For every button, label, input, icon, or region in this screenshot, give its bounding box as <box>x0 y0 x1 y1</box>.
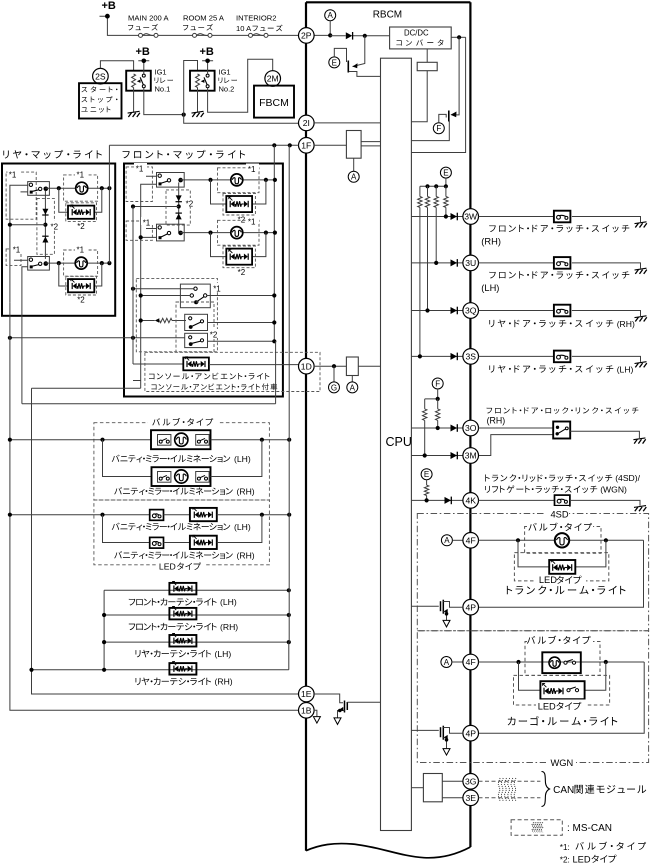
svg-text:+B: +B <box>102 0 116 12</box>
label rear courtesy RH <box>136 678 212 686</box>
switch door latch <box>554 351 571 363</box>
diode row 3U <box>451 259 458 267</box>
resistor R5 <box>424 399 426 409</box>
svg-text:*1: *1 <box>143 219 151 228</box>
ground latch switch <box>635 268 647 274</box>
node F circle lock bank <box>432 378 443 389</box>
junction relay1 out <box>182 113 186 117</box>
LED trunk room <box>549 560 575 574</box>
wire console top <box>133 288 194 290</box>
switch console main <box>180 284 210 308</box>
wire to 2I <box>184 115 299 124</box>
svg-text:4P: 4P <box>465 728 476 738</box>
diode chain rear <box>44 191 46 259</box>
wire pin to latch switch <box>479 310 554 312</box>
wire 4F cargo row <box>479 661 645 663</box>
svg-text:(LH): (LH) <box>234 454 251 464</box>
vanity lamp LH bulb unit <box>151 430 211 449</box>
svg-text:3G: 3G <box>465 776 477 786</box>
dashed box bulb type cargo <box>525 642 600 676</box>
connector pin 4F trunk <box>452 539 463 541</box>
svg-text:*1: *1 <box>213 285 221 294</box>
wires 1F block to CPU <box>361 142 380 146</box>
wire rear switch2 left <box>14 260 28 404</box>
wire DCDC node to CPU <box>411 37 465 152</box>
LED vanity RH <box>190 536 217 549</box>
wire vanity LED row2 <box>103 515 150 543</box>
svg-text:(RH): (RH) <box>215 677 233 687</box>
resistor block small below DC/DC <box>426 49 428 62</box>
svg-text:*1:: *1: <box>560 843 570 852</box>
svg-text:MAIN 200 A: MAIN 200 A <box>128 14 169 23</box>
wire to LED <box>164 514 190 516</box>
svg-text:2M: 2M <box>267 74 279 84</box>
wire 1D block to CPU <box>358 365 380 367</box>
svg-text:(4SD)/: (4SD)/ <box>615 473 640 483</box>
svg-text:+B: +B <box>200 46 214 58</box>
dashed box note1 rear bulb1 <box>64 175 98 201</box>
wire courtesy row1 <box>104 590 289 670</box>
wire pin to latch switch <box>479 262 554 264</box>
connector pin 3M <box>463 448 479 464</box>
wire switch-left rail to 1E rail <box>32 387 141 389</box>
fuse F1 MAIN 200A <box>139 33 159 37</box>
connector pin 2S <box>93 68 109 84</box>
dashed box note1 rear upper <box>6 172 36 219</box>
rear map light box <box>2 164 115 316</box>
svg-text:A: A <box>351 173 357 182</box>
svg-text:CAN: CAN <box>553 785 574 796</box>
resistor block at 1F <box>346 131 361 159</box>
connector pin 1F <box>299 138 315 154</box>
diode row 3S <box>451 353 458 361</box>
wire console mid to rail <box>141 295 275 297</box>
resistor R2 bank <box>427 186 429 196</box>
wire switch to ground <box>572 356 641 362</box>
svg-text:1B: 1B <box>301 705 312 715</box>
svg-text:*1: *1 <box>77 171 85 180</box>
svg-text:No.1: No.1 <box>155 85 171 94</box>
wire 1D to G and block <box>314 365 346 367</box>
wire switch to ground <box>572 263 641 269</box>
svg-text:E: E <box>332 58 337 67</box>
LED vanity LH <box>190 508 217 521</box>
node E circle resistor bank <box>440 167 451 178</box>
svg-text:A: A <box>328 11 334 20</box>
dashed box note1 rear lower <box>6 249 21 266</box>
wire rear switch1 left <box>10 185 28 302</box>
svg-text:WGN: WGN <box>551 758 574 768</box>
connector pin 3Q <box>463 303 479 319</box>
legend MS-CAN symbol <box>532 822 543 832</box>
node E circle 4K <box>421 469 432 480</box>
RBCM bottom torn edge <box>306 844 470 858</box>
dashed box console note1 <box>136 278 217 351</box>
label rear map light <box>3 150 101 159</box>
switch door lock link <box>553 422 570 439</box>
resistor R3 bank <box>435 186 437 196</box>
resistor block 1D <box>346 357 358 376</box>
switch rear map 1 <box>28 182 50 196</box>
wire console sw2 out <box>208 322 275 324</box>
svg-text:A: A <box>350 383 356 392</box>
diode row 3W <box>451 213 458 221</box>
svg-text:4SD: 4SD <box>550 509 568 519</box>
svg-text:IG1: IG1 <box>219 68 231 77</box>
switch door latch <box>554 211 571 223</box>
wire switch to ground <box>572 217 641 223</box>
ground trunk latch <box>634 506 646 512</box>
switch console 2 <box>185 314 208 330</box>
svg-text:3W: 3W <box>464 212 478 222</box>
node G circle <box>333 366 335 382</box>
wire vanity row1 right <box>211 439 290 441</box>
connector pin 2M <box>265 71 281 87</box>
wire front LED1 branch <box>211 180 266 204</box>
svg-text:*2: *2 <box>186 200 194 209</box>
wire E rail <box>420 178 446 186</box>
ground latch switch <box>635 222 647 228</box>
wire 1F to front box <box>109 144 298 146</box>
svg-text:F: F <box>436 124 441 133</box>
LED front courtesy RH <box>169 608 196 620</box>
dashed box note2 front LED2 <box>223 246 255 268</box>
wire courtesy row2 <box>104 614 289 616</box>
svg-text:2P: 2P <box>301 31 312 41</box>
MS-CAN bus dashed to module <box>479 780 541 782</box>
label vanity LED LH <box>112 523 230 531</box>
label bulb type vanity <box>152 418 213 426</box>
svg-text:*2: *2 <box>77 296 85 305</box>
label *1 rear upper <box>8 169 21 177</box>
wire relay1 switch output <box>144 88 184 115</box>
FBCM box <box>254 86 294 118</box>
wire CAN box to 3E <box>442 797 463 799</box>
MS-CAN twisted pair symbol <box>498 778 516 801</box>
brace CAN modules <box>542 772 550 807</box>
wire 4F trunk row <box>479 539 644 541</box>
dashed box note2 console <box>176 302 214 352</box>
wire CPU row to pin 3Q <box>411 310 463 312</box>
lamp front map bulb1 <box>231 174 243 186</box>
ground arrow 4P cargo <box>443 749 450 756</box>
bulb cargo with switch box <box>542 652 581 673</box>
label front courtesy RH <box>129 623 217 631</box>
resistor R7 <box>426 480 428 485</box>
lamp rear map bulb 2 <box>75 257 87 269</box>
dashed box LED type cargo <box>514 675 610 705</box>
LED rear map 2 <box>68 279 94 292</box>
wire F rail <box>425 389 438 399</box>
svg-text:(LH): (LH) <box>617 364 634 374</box>
dashed box LED type vanity <box>94 500 270 565</box>
wire rear feed rail from 1F <box>108 145 110 263</box>
wire 3O to lock link switch <box>479 427 554 429</box>
LED rear map 1 <box>68 206 94 219</box>
wire CPU row to pin 3S <box>411 355 463 357</box>
svg-text:(RH): (RH) <box>237 486 255 496</box>
ground relay1 coil <box>133 88 135 113</box>
transistor Q2 F-gate <box>433 123 444 134</box>
svg-text:3S: 3S <box>465 352 476 362</box>
switch vanity LED RH <box>150 537 164 548</box>
svg-text:E: E <box>424 470 429 479</box>
svg-text:No.2: No.2 <box>219 85 235 94</box>
dashed box note2 rear LED1 <box>66 203 97 222</box>
svg-text:1F: 1F <box>301 140 311 150</box>
svg-text:*1: *1 <box>248 165 256 174</box>
wire front switch1 left <box>141 176 157 388</box>
wire resistor row console <box>141 320 155 322</box>
svg-text:DC/DC: DC/DC <box>404 29 429 38</box>
svg-text:*2: *2 <box>77 222 85 231</box>
wire rear switch2 out to lamp2 <box>45 262 109 264</box>
wire trunk LED branch <box>518 540 606 567</box>
connector pin 1B <box>299 703 315 719</box>
svg-text:*1: *1 <box>9 171 17 180</box>
start-stop unit box <box>79 83 122 118</box>
wire front switch2 left <box>141 229 157 238</box>
wire 1F to resistor block A <box>314 144 346 146</box>
lamp front map bulb2 <box>231 227 243 239</box>
dashed box console ambient equipped <box>145 352 320 391</box>
ground arrow 1E driver <box>334 718 341 725</box>
wire 4K to trunk latch switch <box>479 499 555 501</box>
svg-text:INTERIOR2: INTERIOR2 <box>236 14 277 23</box>
dashed box note1 front bulb1 <box>218 168 260 193</box>
diode 4K <box>445 497 452 505</box>
wire 1E rail <box>32 670 299 694</box>
wire trunk latch to ground <box>570 500 640 505</box>
ground arrow 1B <box>313 717 320 724</box>
wire left rail to rows <box>31 388 33 670</box>
legend MS-CAN dashed box <box>511 820 562 835</box>
connector pin 3S <box>463 349 479 365</box>
wire 3M to lock link switch <box>479 435 553 456</box>
LED front map 2 <box>226 249 252 265</box>
svg-text:1D: 1D <box>301 361 312 371</box>
svg-text:CPU: CPU <box>386 435 412 449</box>
svg-text:*1: *1 <box>77 246 85 255</box>
switch vanity LED LH <box>150 510 164 521</box>
wire front switch1 out <box>180 179 276 181</box>
wire cargo LED branch <box>519 662 606 690</box>
dashed box note2 rear LED2 <box>66 276 97 295</box>
svg-text:4F: 4F <box>466 657 476 667</box>
wire pin to latch switch <box>479 216 554 218</box>
dashed box bulb type vanity <box>94 423 270 500</box>
node A circle top <box>325 10 336 21</box>
svg-text:(LH): (LH) <box>481 283 499 293</box>
relay IG1 No.1 <box>126 71 151 91</box>
wire 2I to CPU <box>314 122 381 124</box>
label front map light <box>123 150 245 159</box>
wire +B to fuse rail <box>100 16 299 35</box>
connector pin 3U <box>463 255 479 271</box>
transistor Q5 1E driver <box>314 694 343 703</box>
connector pin 4P cargo <box>463 725 479 741</box>
wire A to 2P rail <box>329 21 331 36</box>
svg-text:(LH): (LH) <box>220 597 237 607</box>
wire CPU row to pin 3M <box>411 455 463 457</box>
wire block to CPU <box>411 71 427 122</box>
svg-text:3E: 3E <box>465 793 476 803</box>
node A trunk <box>441 535 452 546</box>
svg-text:3O: 3O <box>465 423 477 433</box>
wire relay2 switch to FBCM 2M <box>208 59 273 112</box>
svg-text:F: F <box>435 379 440 388</box>
transistor Q1 E-gate <box>329 57 340 68</box>
svg-text:4F: 4F <box>466 535 476 545</box>
vanity lamp RH bulb unit <box>152 467 211 486</box>
diode D1 after 2P <box>330 35 389 37</box>
lamp rear map bulb 1 <box>76 182 88 194</box>
lamp trunk room bulb <box>555 533 569 547</box>
wire pin to latch switch <box>479 355 554 357</box>
dashed box note2 front LED1 <box>223 193 255 215</box>
wire vanity LED row2 right <box>217 515 262 543</box>
label cargo room light <box>508 716 618 725</box>
transistor Q3 4P trunk driver <box>411 605 438 607</box>
connector pin 2P <box>314 34 330 36</box>
fuse F2 ROOM 25A <box>193 33 213 37</box>
connector pin 3W <box>463 209 479 225</box>
resistor console <box>155 318 160 322</box>
svg-text:3M: 3M <box>465 451 477 461</box>
ground latch switch <box>635 316 647 322</box>
diode row 3M <box>451 452 458 460</box>
svg-text:*1: *1 <box>136 165 144 174</box>
svg-text:A: A <box>444 658 450 667</box>
connector pin 3G <box>463 774 479 790</box>
dashed box bulb type trunk <box>525 527 601 554</box>
wire vanity LED row1 <box>10 514 150 516</box>
LED rear courtesy RH <box>169 663 196 675</box>
fuse F3 INTERIOR2 10A <box>249 33 269 37</box>
connector pin 2I <box>299 115 315 131</box>
ground relay2 coil <box>197 88 199 113</box>
label vanity illumination LH <box>112 455 230 463</box>
svg-text:1E: 1E <box>301 689 312 699</box>
label rear courtesy LH <box>136 650 212 658</box>
svg-text:(WGN): (WGN) <box>600 484 627 494</box>
svg-text:*2: *2 <box>210 331 218 340</box>
ground latch switch <box>635 362 647 368</box>
svg-text:10 A: 10 A <box>236 24 252 33</box>
svg-text:(RH): (RH) <box>237 550 255 560</box>
switch front map 2 <box>157 224 185 241</box>
relay IG1 No.2 <box>190 71 215 91</box>
node A circle 1D <box>351 376 353 382</box>
wire console sw3 left <box>10 337 185 339</box>
wire vanity LED row1 right <box>217 514 289 516</box>
wire 1B left rail <box>10 302 299 710</box>
svg-text:3Q: 3Q <box>465 306 477 316</box>
svg-text:(LH): (LH) <box>215 649 232 659</box>
label front courtesy LH <box>129 598 217 606</box>
wire CPU row to pin 3U <box>411 262 463 264</box>
wire rear LED1 branch <box>59 188 102 212</box>
connector pin 4F cargo <box>452 661 463 663</box>
svg-text:A: A <box>444 536 450 545</box>
wire vanity row2 <box>103 440 152 477</box>
wire lock link to ground <box>570 431 639 438</box>
svg-text:*1: *1 <box>248 218 256 227</box>
svg-text:+B: +B <box>136 46 150 58</box>
CAN transceiver box <box>423 774 442 802</box>
diode row 3O <box>451 424 458 432</box>
wire CPU to CAN box <box>411 787 423 789</box>
wire rear sw2 rail to console rail <box>22 341 276 404</box>
switch console 3 <box>185 333 208 347</box>
label console ambient light equipped <box>151 383 277 390</box>
wire CPU to 4K <box>411 499 463 501</box>
svg-text:3U: 3U <box>465 258 476 268</box>
svg-text:*2: *2 <box>51 223 59 232</box>
ground arrow 4P trunk <box>443 620 450 627</box>
svg-text:2S: 2S <box>95 71 106 81</box>
wire vanity row1 <box>10 439 151 441</box>
svg-text:(LH): (LH) <box>234 522 251 532</box>
LED rear courtesy LH <box>169 635 196 647</box>
resistor R6 <box>437 399 439 409</box>
dashed box note1 front upper <box>126 167 152 202</box>
switch front map 1 <box>157 173 185 188</box>
wire 1B to ground arrow <box>314 710 317 716</box>
wire chain tap to left rail <box>10 224 46 226</box>
svg-text:(RH): (RH) <box>220 622 238 632</box>
svg-text:ROOM 25 A: ROOM 25 A <box>183 14 225 23</box>
wire courtesy row3 <box>104 641 289 643</box>
wire vanity row2 right <box>211 440 262 477</box>
dashed box note1 front mid <box>126 221 152 240</box>
dashed box LED type trunk <box>514 553 608 581</box>
wire rear switch1 out to lamp <box>45 187 109 189</box>
transistor Q4 4P cargo driver <box>411 729 438 731</box>
label trunk room light <box>507 586 626 595</box>
wire courtesy row4 <box>32 642 289 670</box>
svg-text:4P: 4P <box>465 602 476 612</box>
connector pin 1D <box>299 358 315 374</box>
svg-text:FBCM: FBCM <box>259 97 289 109</box>
wire front switch2 out <box>180 232 276 234</box>
svg-text:*1: *1 <box>13 246 21 255</box>
LED cargo with switch box <box>540 681 584 699</box>
LED front map 1 <box>226 196 252 212</box>
wire 2S to relay1 coil <box>100 61 133 71</box>
wire console common rail <box>133 207 141 381</box>
connector pin 4K <box>463 493 479 509</box>
wire relay2 coil feed <box>184 61 198 115</box>
node A below 1F block <box>353 158 355 171</box>
switch rear map 2 <box>28 257 50 271</box>
WGN variant chain box <box>417 631 648 763</box>
wire CAN box to 3G <box>442 780 463 782</box>
svg-text:IG1: IG1 <box>155 68 167 77</box>
wire DC/DC output node <box>451 36 465 38</box>
wire cargo loop to 4P <box>479 662 645 733</box>
svg-text:2I: 2I <box>303 118 310 128</box>
connector pin 1E <box>299 686 315 702</box>
RBCM module box <box>306 2 470 847</box>
svg-text:LED: LED <box>159 562 176 572</box>
switch trunk lid latch <box>555 495 570 506</box>
label vanity LED RH <box>114 551 232 559</box>
connector pin 4P trunk <box>463 599 479 615</box>
dashed box note2 chain rear <box>37 198 55 254</box>
connector pin 3E <box>463 790 479 806</box>
wire front LED2 branch <box>211 233 266 257</box>
